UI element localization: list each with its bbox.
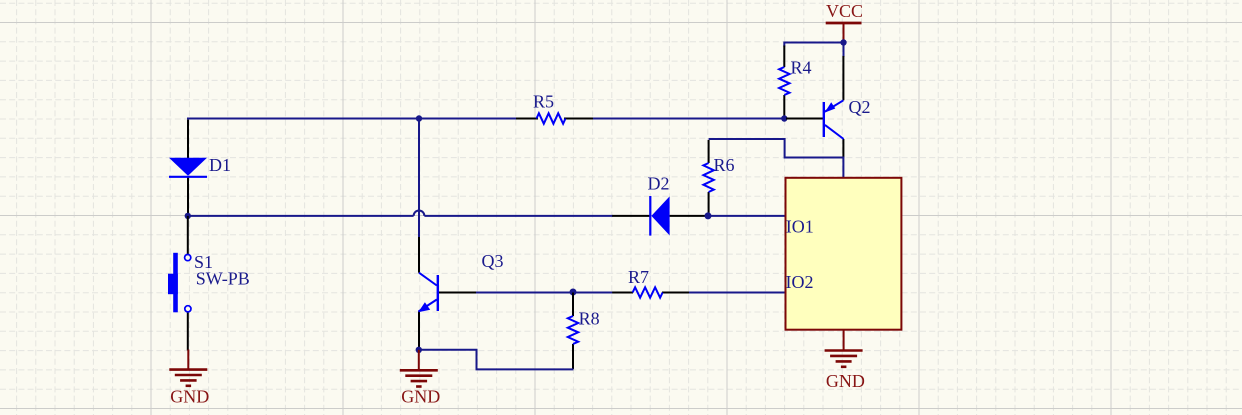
svg-text:GND: GND	[826, 371, 865, 391]
resistor R6	[703, 140, 713, 215]
wire	[592, 118, 784, 120]
node: R4 / Q2 base junction	[781, 115, 787, 121]
svg-text:D1: D1	[209, 155, 231, 175]
svg-text:R6: R6	[714, 155, 735, 175]
svg-text:IO2: IO2	[786, 272, 814, 292]
wire	[843, 43, 845, 58]
svg-text:SW-PB: SW-PB	[196, 269, 250, 289]
svg-text:GND: GND	[170, 387, 209, 407]
svg-text:IO1: IO1	[786, 217, 814, 237]
wire	[187, 118, 517, 120]
wire	[424, 215, 612, 217]
ground GND (right, under IC)	[825, 330, 863, 367]
svg-text:R7: R7	[628, 267, 649, 287]
svg-text:Q3: Q3	[482, 251, 504, 271]
svg-text:GND: GND	[401, 387, 440, 407]
wire	[709, 139, 843, 158]
svg-text:R8: R8	[579, 309, 600, 329]
wire	[689, 292, 786, 294]
wire	[476, 292, 613, 294]
diode D2	[612, 196, 707, 236]
wire	[784, 43, 843, 47]
svg-text:VCC: VCC	[826, 1, 863, 21]
switch S1 (SW-PB)	[168, 216, 191, 351]
transistor Q2	[786, 56, 844, 158]
node: D2 / R6 / IO1 junction	[705, 212, 712, 219]
power VCC	[826, 23, 862, 44]
wire	[842, 157, 844, 180]
svg-text:D2: D2	[648, 173, 670, 193]
resistor R7	[612, 287, 690, 297]
node: VCC junction	[840, 39, 846, 45]
wire	[419, 350, 574, 370]
node: Q3 emitter / GND junction	[416, 347, 422, 353]
node: D1 / S1 junction	[185, 213, 191, 219]
wire hop over Q3 branch	[414, 211, 425, 216]
svg-text:Q2: Q2	[849, 97, 871, 117]
resistor R4	[779, 46, 789, 119]
resistor R5	[516, 113, 593, 123]
node: R7 / R8 junction	[570, 289, 577, 296]
diode D1	[169, 120, 207, 215]
svg-text:R5: R5	[533, 91, 554, 111]
ground GND (left)	[169, 350, 207, 386]
svg-text:R4: R4	[791, 58, 812, 78]
resistor R8	[568, 293, 578, 370]
IC U1 body	[786, 178, 902, 330]
wire	[418, 119, 420, 239]
wire	[188, 215, 414, 217]
ground GND (middle)	[400, 350, 438, 387]
wire	[708, 215, 786, 217]
transistor Q3	[418, 237, 477, 348]
node: top wire to Q3 branch	[416, 115, 422, 121]
